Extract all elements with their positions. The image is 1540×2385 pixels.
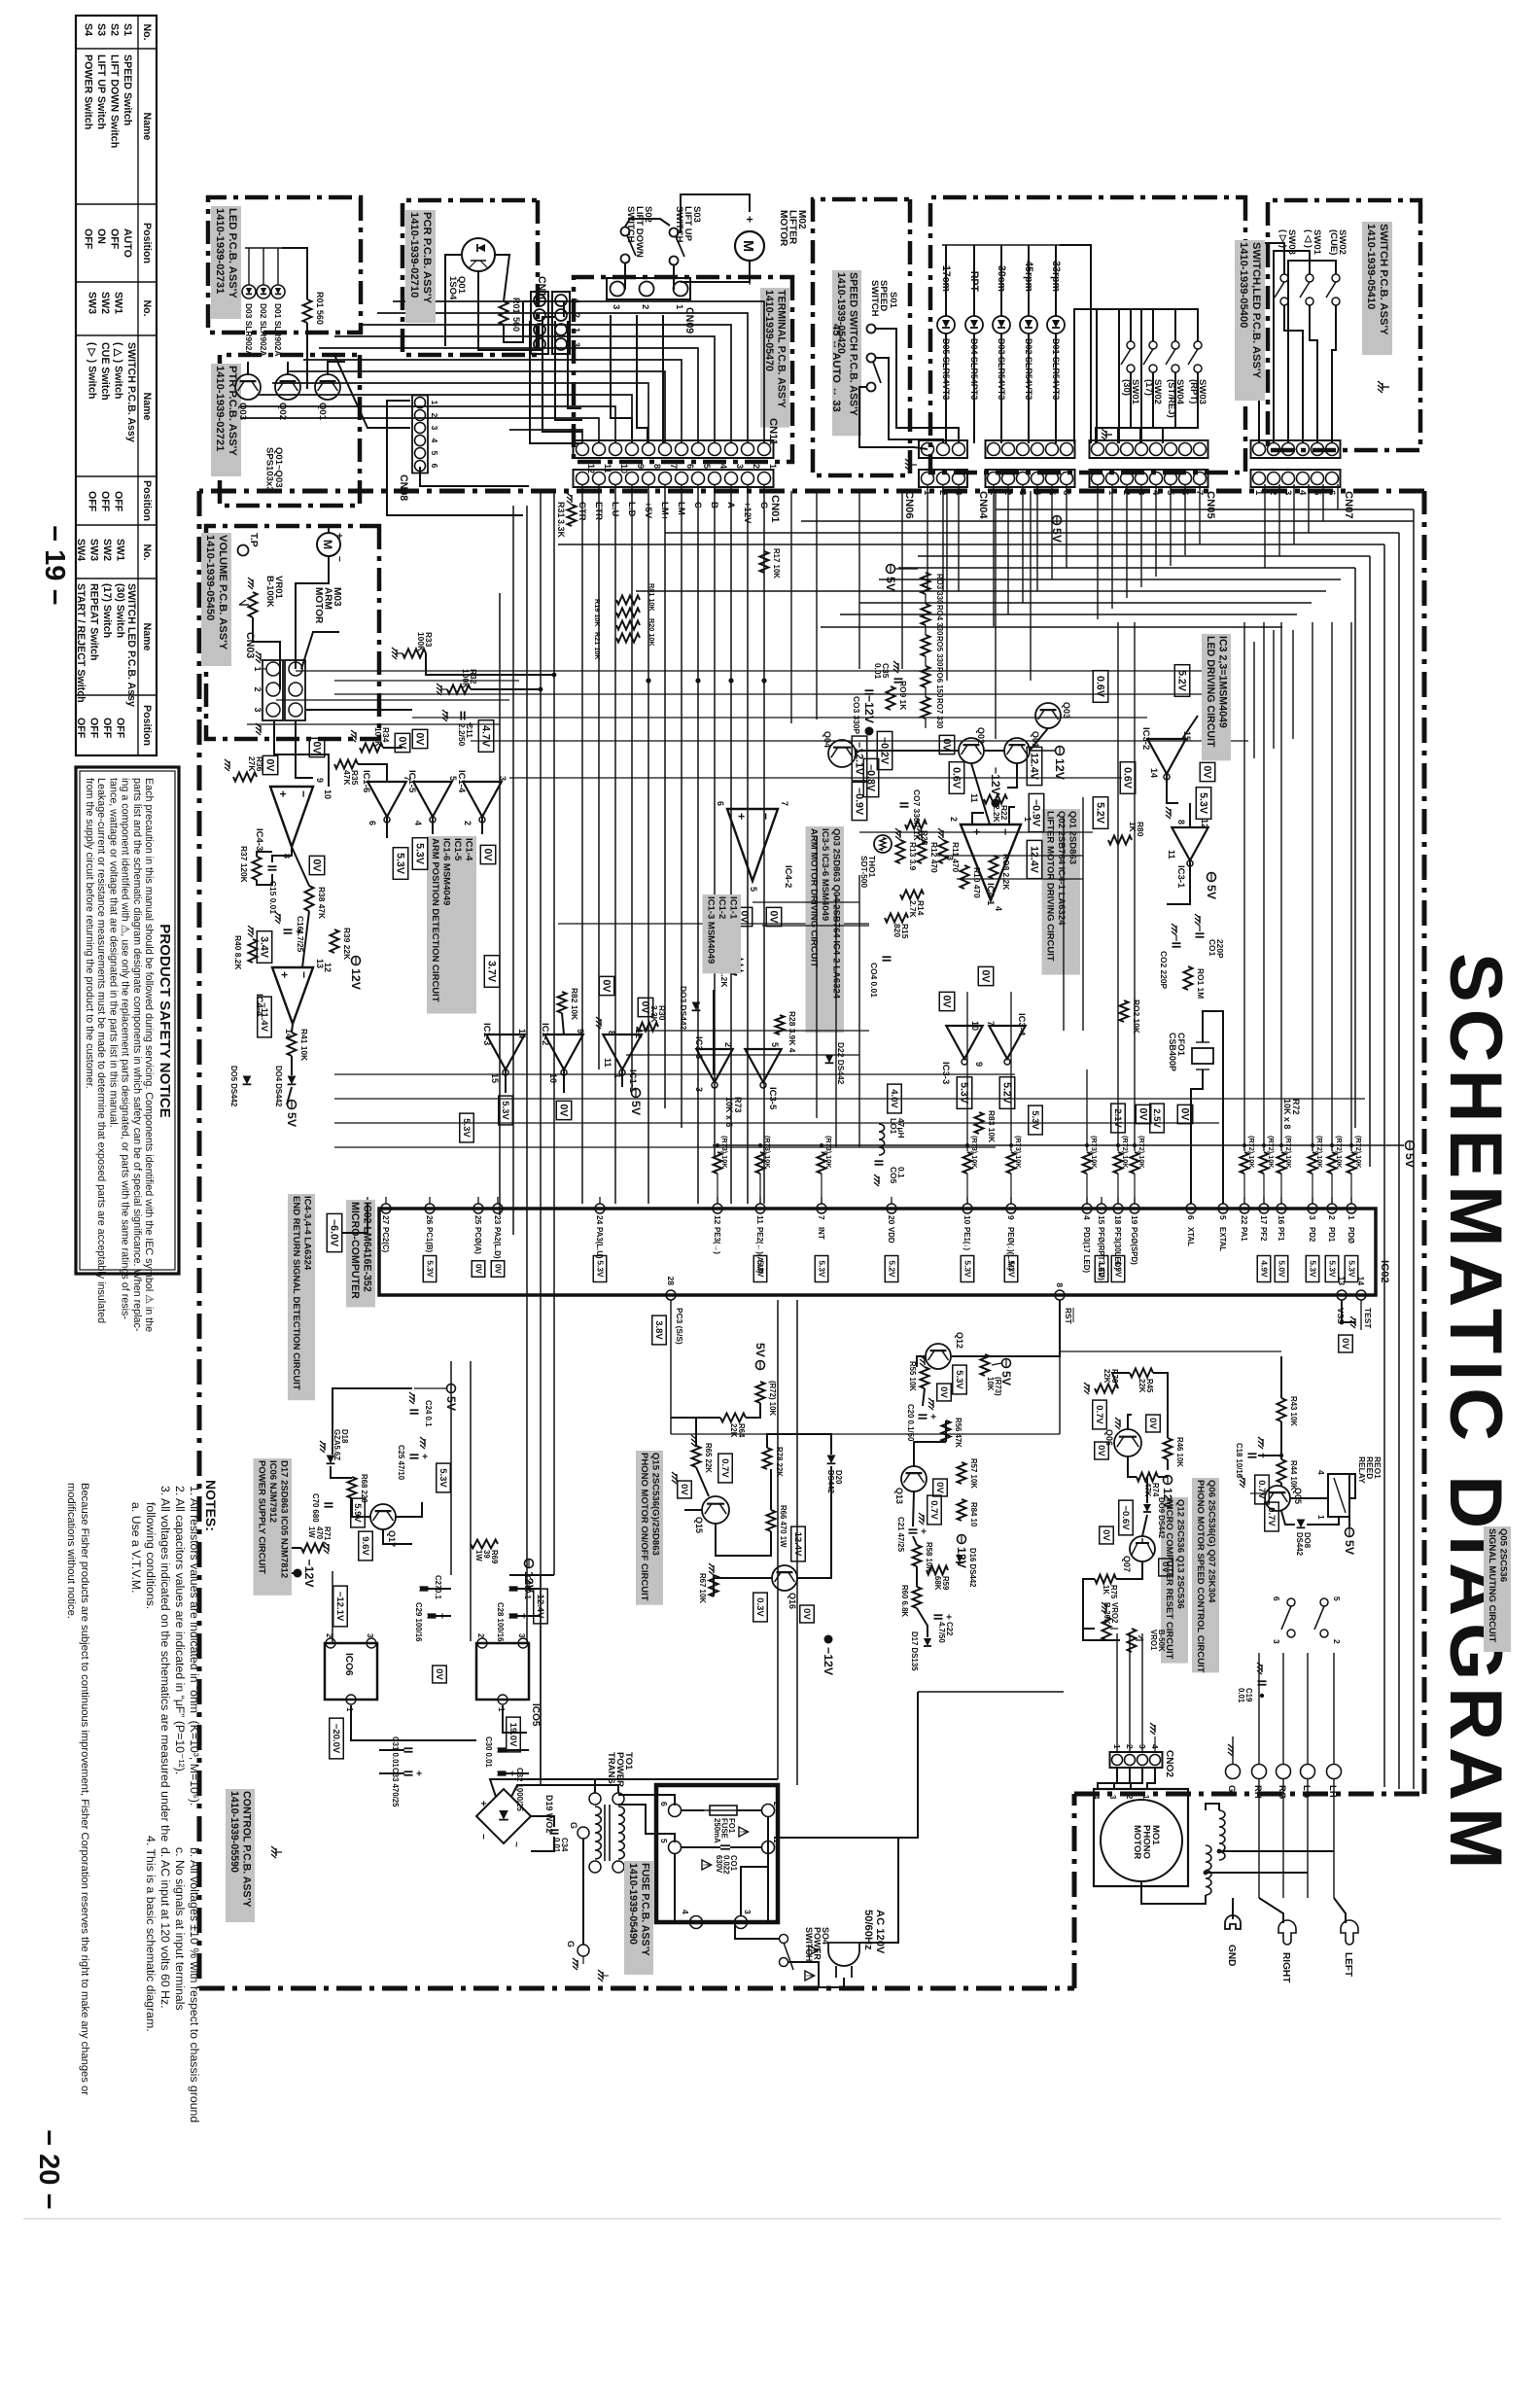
svg-text:6: 6 (1326, 490, 1337, 495)
svg-text:IC1-2: IC1-2 (540, 1023, 550, 1045)
svg-text:LED DRIVING CIRCUIT: LED DRIVING CIRCUIT (1205, 636, 1216, 748)
svg-text:D17 2SD863 IC05 NJM7812: D17 2SD863 IC05 NJM7812 (279, 1460, 290, 1578)
resistor R56 47K (942, 1420, 951, 1442)
svg-text:CN09: CN09 (683, 307, 695, 333)
svg-text:SW1: SW1 (115, 539, 126, 561)
label FUSE P.C.B. ASSY (624, 1861, 653, 1975)
svg-text:− 20 −: − 20 − (33, 2129, 64, 2210)
wires AC plug (774, 1838, 898, 1943)
svg-text:2.2K: 2.2K (992, 805, 1001, 823)
svg-text:PDØ: PDØ (1347, 1227, 1355, 1244)
TERMINAL P.C.B. ASS'Y box (574, 277, 792, 462)
transistor Q05 (1265, 1486, 1290, 1511)
svg-text:!: ! (804, 1975, 813, 1978)
LED D02 (1020, 316, 1037, 333)
power 5V reset (1002, 1359, 1011, 1368)
inverter IC3-5 (745, 1049, 781, 1082)
svg-text:6: 6 (430, 464, 439, 469)
svg-text:( ▷ ) Switch: ( ▷ ) Switch (87, 342, 98, 399)
svg-text:CONTROL P.C.B. ASS’Y: CONTROL P.C.B. ASS’Y (241, 1791, 253, 1908)
neg supply -12V onoff (824, 1635, 833, 1644)
svg-text:Q02 2SB764 IC4-1 LA6324: Q02 2SB764 IC4-1 LA6324 (1056, 811, 1067, 926)
svg-text:Q02: Q02 (976, 727, 986, 744)
svg-text:+: + (743, 216, 756, 223)
svg-text:3: 3 (743, 1910, 752, 1914)
svg-text:3: 3 (366, 1633, 374, 1638)
resistor R29 1.2K (733, 958, 742, 975)
label CONTROL P.C.B. ASSY (226, 1789, 255, 1922)
voltage box 5.3V supply (437, 1463, 451, 1492)
svg-text:IC1-6 MSM4049: IC1-6 MSM4049 (441, 838, 452, 905)
svg-text:OFF: OFF (99, 491, 111, 512)
svg-text:(R72) 10K: (R72) 10K (1284, 1136, 1293, 1169)
svg-text:DO3 DS442: DO3 DS442 (679, 986, 688, 1030)
svg-text:PD1: PD1 (1327, 1227, 1336, 1243)
capacitor C21 47/25 (909, 1528, 918, 1530)
svg-text:S4: S4 (83, 23, 94, 36)
svg-text:ICO6: ICO6 (343, 1653, 354, 1676)
jack GND spade (1232, 1898, 1234, 1919)
svg-text:3: 3 (1282, 490, 1293, 495)
switch SW02 (1149, 341, 1157, 349)
voltage box 0.7V onoff (718, 1454, 733, 1483)
svg-text:5V: 5V (884, 577, 897, 592)
svg-text:11: 11 (969, 793, 979, 802)
svg-text:(R73) 10K: (R73) 10K (720, 1136, 729, 1169)
jack RIGHT rca (1259, 1898, 1283, 1923)
svg-text:(R72) 10K: (R72) 10K (768, 1381, 777, 1416)
svg-text:−: − (297, 971, 311, 978)
svg-text:PGØ(SPD): PGØ(SPD) (1130, 1227, 1138, 1265)
svg-text:0V: 0V (434, 1668, 444, 1680)
svg-text:4: 4 (413, 821, 423, 825)
svg-text:7: 7 (986, 1021, 996, 1026)
LED bus wires (1055, 245, 1057, 316)
svg-text:6: 6 (716, 801, 725, 806)
svg-text:Q05 2SC536: Q05 2SC536 (1498, 1528, 1509, 1582)
svg-text:SWITCH P.C.B. ASS'Y: SWITCH P.C.B. ASS'Y (1378, 224, 1389, 335)
svg-text:3.3K: 3.3K (556, 519, 566, 538)
svg-text:1W: 1W (474, 1550, 483, 1561)
vertical crossers center (296, 670, 1229, 672)
svg-text:R40 8.2K: R40 8.2K (233, 935, 243, 969)
svg-text:5.3V: 5.3V (1006, 1260, 1016, 1278)
svg-text:MOTOR: MOTOR (778, 210, 788, 247)
svg-text:IC1-5: IC1-5 (406, 770, 417, 793)
svg-text:5.9V: 5.9V (352, 1503, 363, 1523)
capacitor C16 4.7/25 (284, 929, 293, 930)
svg-text:CNO2: CNO2 (1164, 1750, 1174, 1777)
svg-text:2: 2 (1327, 1215, 1337, 1220)
wires power supply links (332, 1388, 412, 1455)
svg-text:3: 3 (694, 1087, 704, 1092)
svg-text:5.3V: 5.3V (1198, 792, 1209, 815)
capacitor C04 0.01 (883, 956, 892, 958)
IC02 pin 19 PGØ(SPD) (1130, 1204, 1139, 1213)
wires CN02 left (1141, 1633, 1143, 1752)
connector CN01 (574, 470, 774, 487)
svg-text:−12.1V: −12.1V (334, 1592, 345, 1622)
svg-text:9: 9 (636, 464, 646, 469)
svg-text:0.1: 0.1 (896, 1167, 906, 1178)
IC02 pin 1 PDØ (1347, 1204, 1356, 1213)
svg-text:5.2V: 5.2V (1001, 1082, 1013, 1105)
svg-text:b. All voltages ±10 % with res: b. All voltages ±10 % with respect to ch… (188, 1847, 201, 2122)
resistor R38 47K (305, 886, 314, 911)
svg-text:6: 6 (1272, 1596, 1281, 1601)
svg-text:2: 2 (476, 1633, 485, 1638)
svg-text:3.7V: 3.7V (486, 961, 498, 983)
wire bundle from connectors (vertical grid) (996, 509, 1414, 510)
svg-text:6: 6 (367, 821, 377, 825)
svg-text:3: 3 (735, 464, 745, 469)
svg-text:5.2V: 5.2V (1095, 802, 1106, 824)
terminal LG (1301, 1765, 1315, 1779)
svg-text:POWER Switch: POWER Switch (83, 54, 94, 129)
svg-text:C27: C27 (434, 1575, 442, 1590)
svg-text:5V: 5V (753, 1343, 767, 1358)
horizontal runs lower (553, 492, 555, 1575)
svg-text:IC3-5 IC3-6 MSM4049: IC3-5 IC3-6 MSM4049 (820, 828, 830, 921)
svg-text:R37 120K: R37 120K (239, 846, 249, 883)
label phono motor on/off circuit (636, 1451, 663, 1605)
svg-text:OFF: OFF (101, 718, 113, 739)
svg-text:0V: 0V (1147, 1418, 1158, 1429)
svg-text:1: 1 (1253, 490, 1264, 496)
svg-text:5.3V: 5.3V (414, 843, 426, 865)
svg-text:!: ! (738, 1831, 747, 1834)
connector CN10 (552, 292, 570, 354)
svg-text:R01: R01 (511, 298, 521, 313)
resistor (R73) 10K reset (981, 1354, 990, 1376)
svg-text:1K: 1K (1128, 822, 1137, 832)
svg-text:IC4-3,4-4 LA6324: IC4-3,4-4 LA6324 (302, 1196, 313, 1271)
resistor R01 560 led (303, 299, 312, 323)
svg-text:+: + (734, 813, 748, 820)
wires ptr (328, 362, 345, 374)
svg-text:−0.6V: −0.6V (1120, 1505, 1131, 1530)
svg-text:+: + (927, 1414, 938, 1420)
svg-text:C30 0.01: C30 0.01 (484, 1736, 493, 1768)
svg-text:23: 23 (493, 1215, 503, 1225)
resistor R68 220 (348, 1477, 357, 1498)
terminal LH (1327, 1765, 1342, 1779)
svg-text:+: + (437, 1613, 447, 1619)
svg-text:3.4V: 3.4V (259, 936, 270, 959)
svg-text:5.3V: 5.3V (437, 1468, 448, 1488)
voltage box 0V supply (433, 1666, 447, 1683)
voltage box -0.6V (1119, 1500, 1134, 1535)
resistor R45 22K (1130, 1369, 1153, 1378)
svg-text:R56 47K: R56 47K (954, 1418, 962, 1448)
svg-text:S3: S3 (95, 23, 107, 36)
svg-text:0V: 0V (801, 1608, 812, 1620)
svg-text:RO8 2.2K: RO8 2.2K (1001, 854, 1011, 890)
svg-text:OFF: OFF (75, 718, 87, 739)
svg-text:0V: 0V (1179, 1108, 1191, 1122)
svg-text:C18 10/16: C18 10/16 (1235, 1443, 1243, 1479)
svg-text:DO4 DS442: DO4 DS442 (274, 1066, 283, 1107)
svg-text:C21 47/25: C21 47/25 (896, 1517, 905, 1553)
svg-text:1SO4: 1SO4 (447, 276, 458, 300)
svg-text:B-50K: B-50K (1157, 1630, 1166, 1652)
svg-text:3.8V: 3.8V (653, 1320, 664, 1340)
voltage box 0V reset (937, 1384, 952, 1401)
svg-text:ARM MOTOR DRIVING CIRCUIT: ARM MOTOR DRIVING CIRCUIT (809, 828, 820, 967)
wires fuse box (681, 1809, 704, 1811)
svg-text:25: 25 (473, 1215, 483, 1225)
svg-text:LIFTER MOTOR DRIVING CIRCUIT: LIFTER MOTOR DRIVING CIRCUIT (1045, 811, 1056, 962)
svg-text:following conditions.: following conditions. (144, 1502, 157, 1609)
resistor bank R73 10K x 6 (714, 1152, 722, 1174)
svg-text:R84 10: R84 10 (969, 1502, 978, 1527)
voltage boxes ic3 outputs (999, 1077, 1015, 1109)
svg-text:68K: 68K (933, 1576, 942, 1591)
IC02 pin 21 PAØ(END) (363, 1204, 372, 1213)
transistor Q01 (315, 374, 340, 400)
connector CN09 (607, 278, 690, 299)
svg-text:T.P: T.P (248, 533, 259, 547)
LED D01 SLR902A (271, 285, 285, 298)
diode D04 DS442 (288, 1076, 297, 1085)
svg-text:TRANS: TRANS (606, 1752, 616, 1784)
resistor R22 2.2K (984, 795, 1007, 804)
capacitor C19 0.01 (1258, 1680, 1267, 1682)
svg-text:~: ~ (510, 1841, 521, 1847)
svg-text:CN07: CN07 (1343, 491, 1354, 519)
svg-text:Leakage-current or resistance: Leakage-current or resistance measuremen… (95, 778, 107, 1323)
svg-text:−6.0V: −6.0V (329, 1219, 340, 1247)
svg-text:12.4V: 12.4V (1029, 753, 1040, 781)
power 5V IC1-1 (632, 1089, 641, 1098)
svg-text:4.9V: 4.9V (1259, 1260, 1269, 1278)
product safety notice box (76, 767, 179, 1274)
svg-text:2.5V: 2.5V (1151, 1108, 1162, 1128)
svg-text:C33 470/25: C33 470/25 (391, 1768, 400, 1807)
svg-text:0V: 0V (1340, 1338, 1350, 1350)
voltage box 0.7V speed (1093, 1400, 1107, 1429)
svg-text:0V: 0V (558, 1105, 570, 1118)
svg-text:12V: 12V (349, 968, 363, 991)
svg-text:100K: 100K (461, 669, 471, 688)
svg-text:PTR P.C.B. ASS'Y: PTR P.C.B. ASS'Y (227, 366, 238, 456)
svg-text:1410-1939-02731: 1410-1939-02731 (214, 208, 226, 294)
svg-text:M: M (321, 540, 334, 549)
svg-text:+: + (477, 1801, 488, 1806)
svg-text:(R73) 10K: (R73) 10K (763, 1136, 772, 1169)
resistor R12 470 (918, 840, 927, 863)
svg-text:(R72) 10K: (R72) 10K (1354, 1136, 1363, 1169)
resistor R82 10K (558, 992, 567, 1013)
svg-text:+: + (276, 790, 290, 797)
svg-text:DS442: DS442 (1295, 1532, 1304, 1557)
svg-text:SW2: SW2 (101, 539, 113, 561)
svg-text:22K: 22K (729, 1423, 738, 1438)
svg-text:GZA5.6Z: GZA5.6Z (332, 1429, 341, 1460)
inductor L01 47uH (879, 1124, 885, 1155)
svg-text:5V: 5V (999, 1371, 1013, 1386)
svg-text:0V: 0V (980, 970, 992, 984)
svg-text:3: 3 (611, 304, 621, 309)
svg-text:+: + (333, 533, 344, 539)
LED D05 (937, 316, 955, 333)
label IC1-1 IC1-2 IC1-3 (703, 894, 742, 973)
motor pickup coil A (1219, 1810, 1225, 1860)
label LED P.C.B. ASS'Y (211, 206, 241, 319)
PCR P.C.B. ASS'Y box (402, 200, 538, 355)
wires pcr (495, 255, 509, 301)
svg-text:CSB400P: CSB400P (1168, 1033, 1177, 1071)
resistor R31 3.3K (568, 505, 577, 526)
5V bus for pull-up bank (713, 1144, 1404, 1146)
power 5V muting (1346, 1528, 1354, 1537)
svg-text:45 ↔ AUTO ↔ 33: 45 ↔ AUTO ↔ 33 (830, 324, 842, 412)
svg-text:R28 3.9K 4: R28 3.9K 4 (787, 1011, 797, 1053)
voltage labels led drive (1174, 665, 1190, 697)
LED D04 (965, 316, 983, 333)
svg-text:RO3 330: RO3 330 (935, 574, 944, 605)
diode D20 DS442 (827, 1456, 836, 1464)
jack LEFT rca (1334, 1898, 1346, 1923)
potentiometer VR01 B-100K (249, 592, 258, 617)
svg-text:1410-1939-05400: 1410-1939-05400 (1238, 242, 1249, 328)
svg-text:IC4-3: IC4-3 (254, 828, 264, 851)
svg-text:LEFT: LEFT (1343, 1952, 1353, 1978)
power 5V near CN06 (887, 565, 895, 574)
svg-text:(R72) 10K: (R72) 10K (1335, 1136, 1344, 1169)
label signal muting circuit (1484, 1526, 1511, 1652)
svg-text:LIFT DOWN Switch: LIFT DOWN Switch (109, 54, 121, 148)
svg-text:4: 4 (1092, 1795, 1101, 1800)
phono motor M01 (1101, 1800, 1182, 1881)
svg-text:5V: 5V (444, 1396, 458, 1412)
svg-text:R38 47K: R38 47K (317, 887, 327, 919)
svg-text:4.0V: 4.0V (889, 1089, 899, 1108)
svg-text:8: 8 (607, 1031, 616, 1035)
svg-text:10: 10 (548, 1073, 558, 1083)
switch bus wires (1141, 309, 1198, 443)
svg-text:+: + (277, 971, 291, 978)
svg-text:10K x 6: 10K x 6 (724, 1097, 734, 1127)
svg-text:1: 1 (253, 667, 262, 672)
svg-text:( ◁ ): ( ◁ ) (1303, 229, 1313, 248)
switch SW01 (1127, 341, 1135, 349)
svg-text:RG: RG (1277, 1785, 1287, 1799)
svg-text:Position: Position (141, 223, 153, 263)
wires CN08 to terminal (420, 467, 529, 486)
microcomputer IC02 LM6416E-352 (379, 1209, 1376, 1295)
svg-text:Q16: Q16 (787, 1593, 797, 1609)
svg-text:D17 DS135: D17 DS135 (910, 1631, 919, 1671)
svg-text:+: + (518, 1613, 529, 1619)
svg-text:50/60Hz: 50/60Hz (862, 1910, 874, 1950)
connector CN11 (574, 440, 774, 458)
svg-text:Each precaution in this manual: Each precaution in this manual should be… (143, 778, 155, 1332)
svg-text:RO5 330: RO5 330 (935, 636, 944, 667)
svg-text:IC1-2: IC1-2 (717, 896, 727, 919)
wires IC02 right side to power area (796, 1300, 798, 1785)
wires S01 to CN06 (876, 329, 959, 443)
svg-text:OFF: OFF (83, 228, 94, 250)
svg-text:9.6V: 9.6V (360, 1536, 370, 1556)
svg-text:R55 10K: R55 10K (908, 1361, 917, 1391)
svg-text:R21 10K: R21 10K (593, 632, 602, 660)
svg-text:ing a component identified wit: ing a component identified with ⚠, use o… (120, 778, 131, 1319)
svg-text:5V: 5V (1403, 1153, 1417, 1169)
svg-text:0V: 0V (941, 996, 953, 1009)
svg-text:2.2/50: 2.2/50 (457, 723, 467, 747)
svg-text:0V: 0V (264, 759, 276, 773)
capacitor C03 330P (865, 689, 874, 691)
resistor R64 22K (720, 1414, 746, 1422)
svg-text:0V: 0V (640, 1001, 651, 1015)
svg-text:RO7 330: RO7 330 (935, 698, 944, 729)
terminal RG (1277, 1765, 1291, 1779)
wires CN03 to detection circuit (296, 721, 313, 778)
IC02 pin 25 PCØ(A) (473, 1204, 483, 1213)
phono motor M01 box (1094, 1789, 1188, 1886)
svg-text:IC3-4: IC3-4 (1016, 1013, 1027, 1036)
svg-text:5.0V: 5.0V (1277, 1260, 1286, 1278)
svg-text:1W: 1W (307, 1526, 316, 1538)
resistor R75 1K (1095, 1575, 1116, 1584)
resistor R15 820 (885, 914, 908, 923)
svg-text:START / REJECT Switch: START / REJECT Switch (75, 583, 87, 703)
svg-text:5.2V: 5.2V (887, 1260, 896, 1278)
svg-text:IC1-5: IC1-5 (452, 838, 463, 861)
svg-text:D02 SLR902A: D02 SLR902A (259, 303, 268, 356)
neg supply -12V opamp (992, 799, 1000, 808)
svg-text:IC4-2: IC4-2 (783, 865, 793, 888)
wires CN02 to motor (1147, 1768, 1155, 1789)
PTR P.C.B. ASS'Y box (220, 355, 360, 506)
resistor R21 10K (616, 634, 640, 643)
svg-text:2: 2 (640, 304, 650, 309)
svg-text:5.3V: 5.3V (962, 1260, 972, 1278)
svg-text:IC02: IC02 (1379, 1260, 1390, 1283)
resistor RO5 (922, 635, 930, 656)
svg-text:PCR P.C.B. ASS'Y: PCR P.C.B. ASS'Y (421, 212, 433, 304)
power 5V near CN04 (1053, 516, 1062, 525)
svg-text:−: − (333, 556, 344, 562)
svg-text:11: 11 (1167, 850, 1176, 859)
svg-text:−: − (297, 790, 310, 797)
svg-text:RO1 1M: RO1 1M (1196, 968, 1206, 999)
svg-text:9: 9 (1006, 1215, 1016, 1220)
svg-text:7: 7 (780, 801, 789, 806)
svg-text:3: 3 (517, 1633, 526, 1638)
transistor Q01 (1004, 738, 1030, 763)
resistor R30 3.3K (637, 1023, 658, 1032)
svg-text:12: 12 (1200, 819, 1209, 828)
capacitor C29 100/16 (428, 1613, 437, 1615)
svg-text:0V: 0V (768, 911, 780, 925)
transistor Q02 (275, 374, 300, 400)
op-amp IC4-1 (961, 824, 1021, 900)
svg-text:PE1(↓): PE1(↓) (962, 1227, 971, 1250)
resistor R20 10K (616, 621, 640, 630)
resistor R44 10K (1277, 1459, 1286, 1483)
svg-text:RH: RH (1252, 1785, 1263, 1799)
svg-text:Name: Name (141, 113, 153, 141)
fuse box pins (669, 1805, 682, 1817)
LED D03 SLR902A (242, 285, 256, 298)
svg-text:4: 4 (1316, 1470, 1326, 1475)
svg-text:0.6V: 0.6V (951, 767, 962, 789)
transistor Q16 (772, 1565, 797, 1591)
svg-text:CN11: CN11 (767, 418, 779, 445)
svg-text:Name: Name (141, 393, 153, 421)
